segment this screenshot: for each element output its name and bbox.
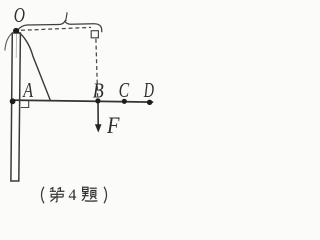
（ [42, 187, 44, 203]
dot B [95, 98, 100, 103]
svg-text:l: l [64, 9, 68, 24]
svg-text:C: C [119, 78, 130, 102]
svg-text:4: 4 [68, 187, 76, 204]
force arrow F at B [97, 103, 99, 127]
svg-text:F: F [106, 113, 120, 138]
svg-text:A: A [22, 78, 33, 102]
post inner line [15, 34, 17, 58]
strut from O to beam [18, 32, 50, 100]
） [104, 187, 106, 203]
post (vertical fixed bar) [11, 33, 21, 181]
dashed horizontal line (length l) [21, 27, 91, 30]
第 [50, 187, 65, 202]
rope end curve (left of pin O) [5, 32, 13, 50]
right-angle mark at A [21, 101, 29, 108]
pin dot O [13, 28, 19, 34]
beam (horizontal) [12, 100, 153, 102]
pivot dot A [10, 98, 16, 104]
right-angle square at top corner [91, 31, 98, 38]
题 [82, 187, 98, 201]
svg-text:B: B [93, 78, 104, 102]
dot C [122, 99, 127, 104]
svg-text:D: D [143, 78, 154, 102]
dot D [147, 100, 152, 105]
vertical dashed line down to B [96, 39, 98, 97]
brace over l [18, 21, 102, 32]
caption (第 4 题) [42, 187, 107, 203]
svg-text:O: O [14, 3, 25, 27]
